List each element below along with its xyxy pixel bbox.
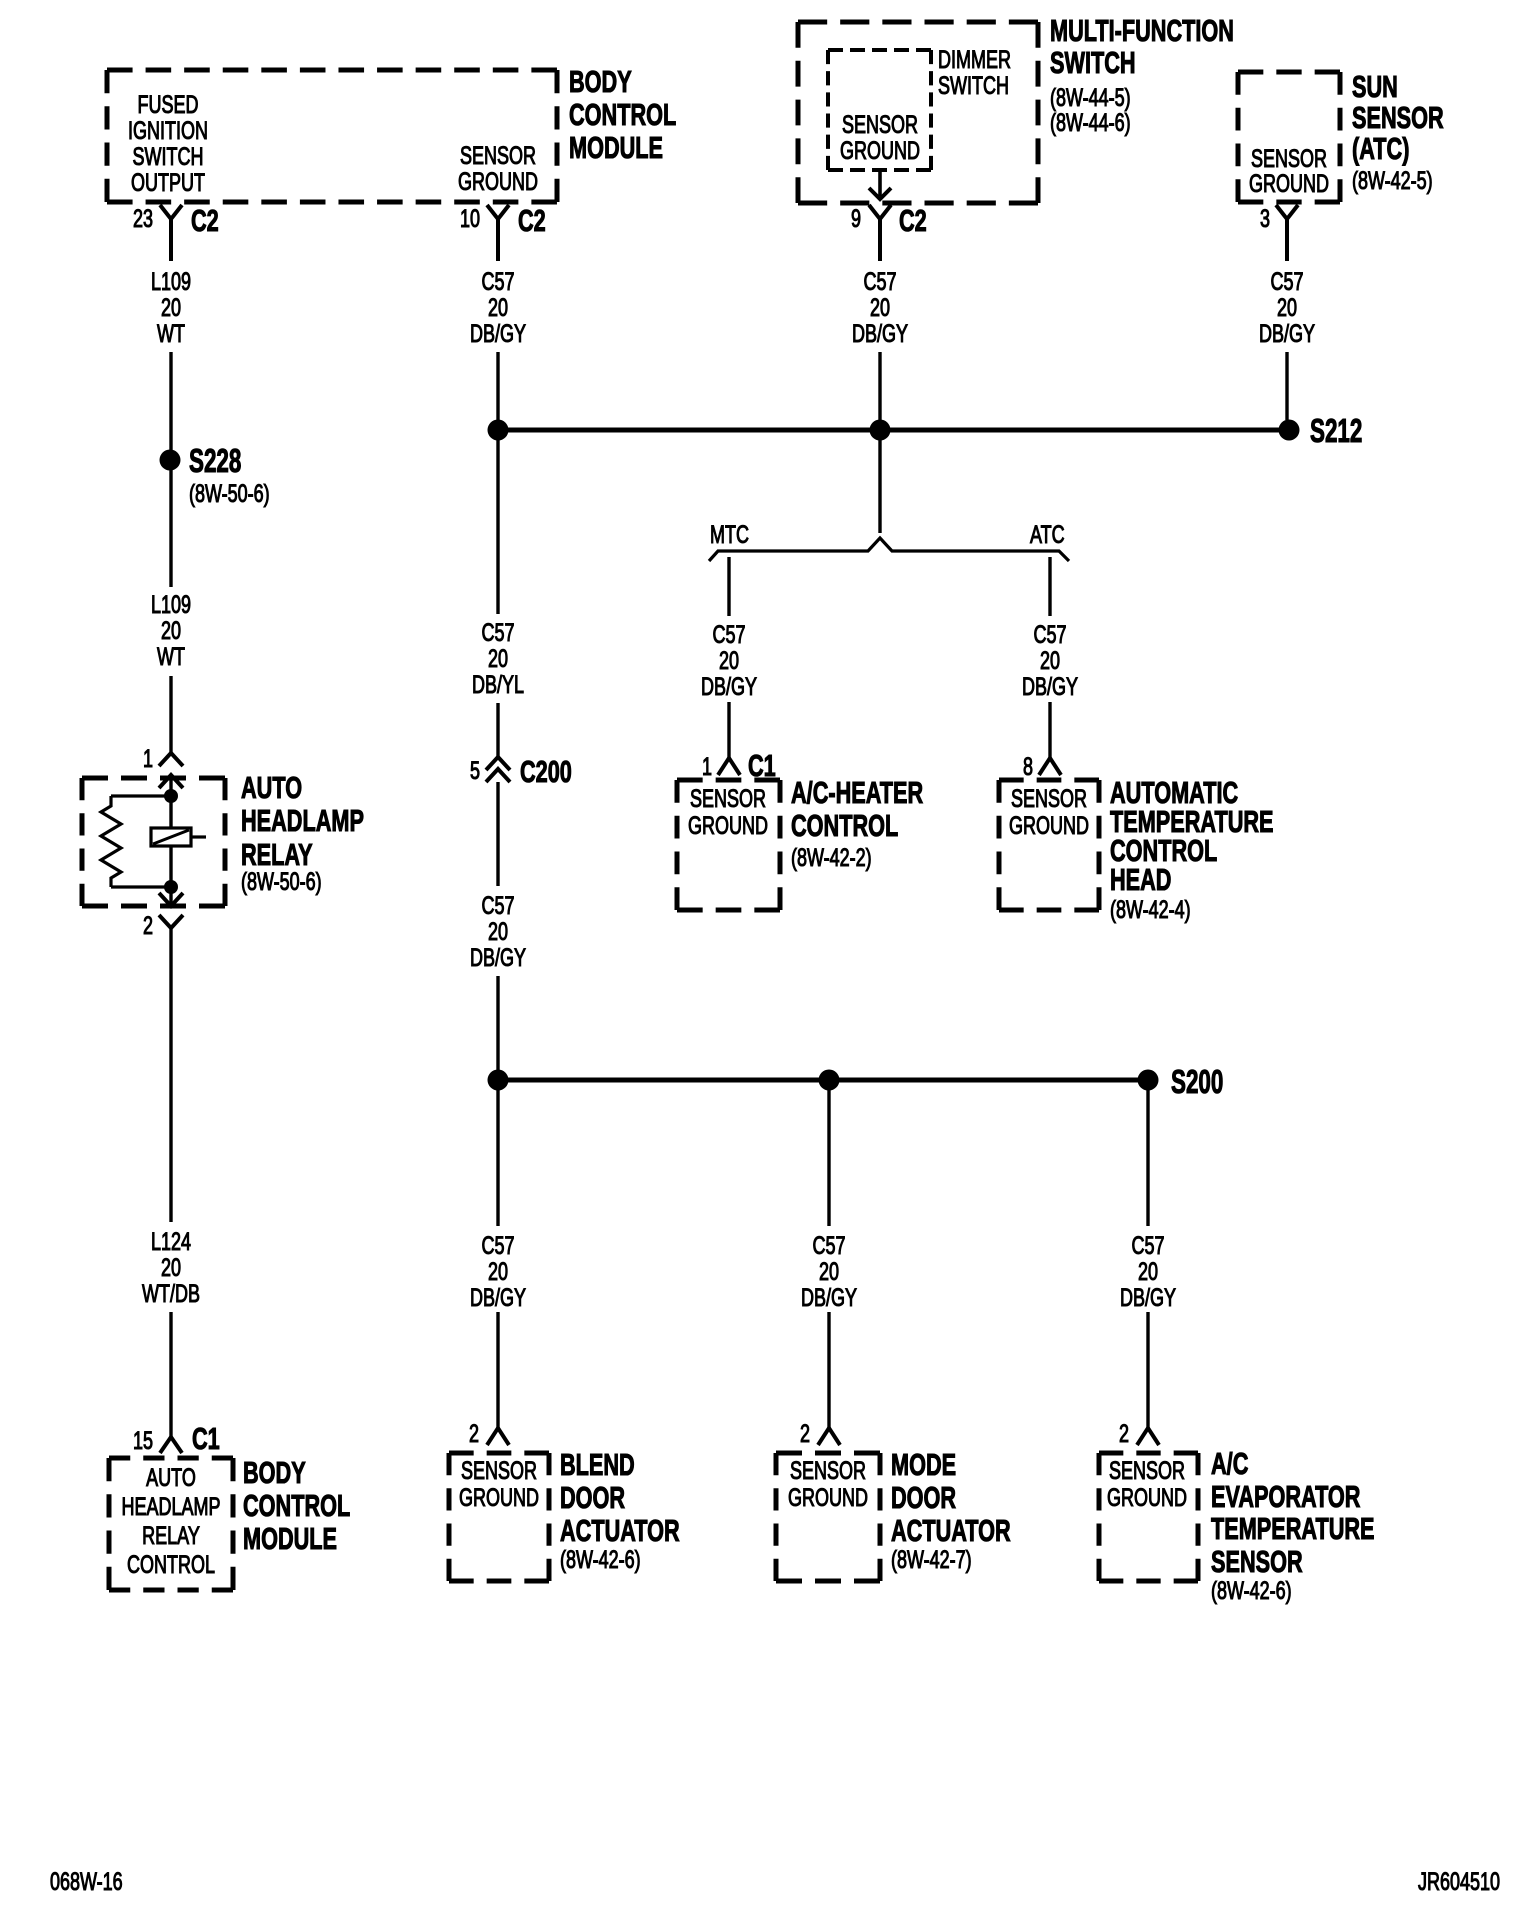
svg-text:C57: C57 xyxy=(481,618,514,647)
svg-text:DB/GY: DB/GY xyxy=(470,319,526,348)
svg-text:S200: S200 xyxy=(1171,1063,1223,1100)
svg-text:HEADLAMP: HEADLAMP xyxy=(241,803,364,838)
svg-text:JR604510: JR604510 xyxy=(1418,1867,1500,1896)
svg-text:DB/GY: DB/GY xyxy=(1120,1283,1176,1312)
svg-text:C2: C2 xyxy=(899,203,927,238)
svg-text:2: 2 xyxy=(1119,1419,1129,1448)
svg-text:L109: L109 xyxy=(151,590,191,619)
svg-text:20: 20 xyxy=(488,293,508,322)
svg-text:20: 20 xyxy=(1138,1257,1158,1286)
svg-text:20: 20 xyxy=(1277,293,1297,322)
svg-text:GROUND: GROUND xyxy=(458,167,538,196)
svg-text:WT: WT xyxy=(157,319,185,348)
svg-text:068W-16: 068W-16 xyxy=(50,1867,123,1896)
svg-text:GROUND: GROUND xyxy=(788,1483,868,1512)
svg-text:A/C-HEATER: A/C-HEATER xyxy=(791,775,923,810)
svg-text:C1: C1 xyxy=(748,748,776,783)
svg-text:(8W-42-5): (8W-42-5) xyxy=(1352,166,1433,195)
svg-text:S212: S212 xyxy=(1310,412,1362,449)
svg-text:SENSOR: SENSOR xyxy=(842,110,918,139)
svg-text:AUTO: AUTO xyxy=(241,770,302,805)
svg-text:SENSOR: SENSOR xyxy=(1109,1456,1185,1485)
svg-text:(8W-42-6): (8W-42-6) xyxy=(560,1545,641,1574)
svg-text:EVAPORATOR: EVAPORATOR xyxy=(1211,1479,1360,1514)
svg-text:C2: C2 xyxy=(191,203,219,238)
svg-text:DB/YL: DB/YL xyxy=(472,670,524,699)
svg-text:DB/GY: DB/GY xyxy=(1022,672,1078,701)
svg-text:20: 20 xyxy=(161,616,181,645)
svg-text:20: 20 xyxy=(870,293,890,322)
svg-text:MODE: MODE xyxy=(891,1447,956,1482)
svg-text:(8W-44-6): (8W-44-6) xyxy=(1050,108,1131,137)
svg-text:ACTUATOR: ACTUATOR xyxy=(560,1513,680,1548)
svg-text:DB/GY: DB/GY xyxy=(701,672,757,701)
svg-text:SENSOR: SENSOR xyxy=(790,1456,866,1485)
svg-text:L124: L124 xyxy=(151,1227,191,1256)
svg-text:OUTPUT: OUTPUT xyxy=(131,168,205,197)
svg-text:C57: C57 xyxy=(481,267,514,296)
svg-text:BLEND: BLEND xyxy=(560,1447,635,1482)
svg-text:S228: S228 xyxy=(189,442,241,479)
svg-text:20: 20 xyxy=(1040,646,1060,675)
svg-text:HEAD: HEAD xyxy=(1110,862,1171,897)
svg-text:DIMMER: DIMMER xyxy=(938,45,1011,74)
svg-text:20: 20 xyxy=(488,1257,508,1286)
svg-text:C57: C57 xyxy=(712,620,745,649)
svg-text:BODY: BODY xyxy=(243,1455,306,1490)
svg-text:DB/GY: DB/GY xyxy=(470,943,526,972)
svg-text:20: 20 xyxy=(161,1253,181,1282)
svg-text:C57: C57 xyxy=(1131,1231,1164,1260)
svg-text:(8W-42-4): (8W-42-4) xyxy=(1110,895,1191,924)
svg-text:2: 2 xyxy=(469,1419,479,1448)
svg-text:C57: C57 xyxy=(1033,620,1066,649)
svg-text:2: 2 xyxy=(143,911,153,940)
svg-text:23: 23 xyxy=(133,204,153,233)
svg-text:2: 2 xyxy=(800,1419,810,1448)
svg-text:20: 20 xyxy=(488,644,508,673)
svg-text:(8W-42-6): (8W-42-6) xyxy=(1211,1576,1292,1605)
svg-text:TEMPERATURE: TEMPERATURE xyxy=(1211,1511,1375,1546)
svg-text:CONTROL: CONTROL xyxy=(791,808,898,843)
svg-text:MULTI-FUNCTION: MULTI-FUNCTION xyxy=(1050,13,1234,48)
svg-text:MTC: MTC xyxy=(710,520,749,549)
svg-text:DB/GY: DB/GY xyxy=(1259,319,1315,348)
svg-text:A/C: A/C xyxy=(1211,1446,1248,1481)
svg-text:3: 3 xyxy=(1260,204,1270,233)
svg-text:SENSOR: SENSOR xyxy=(461,1456,537,1485)
svg-text:BODY: BODY xyxy=(569,64,632,99)
svg-text:L109: L109 xyxy=(151,267,191,296)
svg-text:SENSOR: SENSOR xyxy=(690,784,766,813)
svg-text:GROUND: GROUND xyxy=(459,1483,539,1512)
svg-text:IGNITION: IGNITION xyxy=(128,116,208,145)
svg-text:C1: C1 xyxy=(192,1421,220,1456)
svg-text:C57: C57 xyxy=(1270,267,1303,296)
svg-text:(8W-42-7): (8W-42-7) xyxy=(891,1545,972,1574)
svg-text:GROUND: GROUND xyxy=(1107,1483,1187,1512)
svg-text:1: 1 xyxy=(702,752,712,781)
svg-text:C57: C57 xyxy=(481,1231,514,1260)
svg-text:C2: C2 xyxy=(518,203,546,238)
svg-text:DOOR: DOOR xyxy=(891,1480,956,1515)
svg-text:C200: C200 xyxy=(520,754,572,789)
svg-text:20: 20 xyxy=(819,1257,839,1286)
svg-text:20: 20 xyxy=(161,293,181,322)
svg-text:DOOR: DOOR xyxy=(560,1480,625,1515)
svg-text:SENSOR: SENSOR xyxy=(1011,784,1087,813)
svg-text:HEADLAMP: HEADLAMP xyxy=(122,1492,221,1521)
svg-text:20: 20 xyxy=(719,646,739,675)
svg-text:(8W-42-2): (8W-42-2) xyxy=(791,843,872,872)
svg-text:MODULE: MODULE xyxy=(569,130,663,165)
svg-text:RELAY: RELAY xyxy=(142,1521,200,1550)
svg-text:WT/DB: WT/DB xyxy=(142,1279,200,1308)
svg-text:DB/GY: DB/GY xyxy=(801,1283,857,1312)
svg-text:SENSOR: SENSOR xyxy=(1211,1544,1303,1579)
svg-text:5: 5 xyxy=(470,756,480,785)
svg-text:CONTROL: CONTROL xyxy=(127,1550,215,1579)
svg-text:MODULE: MODULE xyxy=(243,1521,337,1556)
svg-text:GROUND: GROUND xyxy=(840,136,920,165)
svg-text:GROUND: GROUND xyxy=(1249,169,1329,198)
svg-text:SWITCH: SWITCH xyxy=(1050,45,1136,80)
svg-text:DB/GY: DB/GY xyxy=(852,319,908,348)
svg-text:SUN: SUN xyxy=(1352,69,1398,104)
svg-text:ATC: ATC xyxy=(1030,520,1065,549)
svg-text:CONTROL: CONTROL xyxy=(243,1488,350,1523)
svg-text:C57: C57 xyxy=(863,267,896,296)
svg-text:15: 15 xyxy=(133,1426,153,1455)
svg-text:C57: C57 xyxy=(812,1231,845,1260)
svg-text:WT: WT xyxy=(157,642,185,671)
svg-text:C57: C57 xyxy=(481,891,514,920)
svg-text:10: 10 xyxy=(460,204,480,233)
svg-text:ACTUATOR: ACTUATOR xyxy=(891,1513,1011,1548)
svg-text:1: 1 xyxy=(143,744,153,773)
svg-text:20: 20 xyxy=(488,917,508,946)
svg-text:(8W-50-6): (8W-50-6) xyxy=(241,867,322,896)
svg-text:(8W-50-6): (8W-50-6) xyxy=(189,479,270,508)
svg-text:GROUND: GROUND xyxy=(688,811,768,840)
svg-text:SENSOR: SENSOR xyxy=(460,141,536,170)
svg-text:(ATC): (ATC) xyxy=(1352,131,1409,166)
svg-text:SWITCH: SWITCH xyxy=(133,142,204,171)
svg-text:9: 9 xyxy=(851,204,861,233)
svg-text:GROUND: GROUND xyxy=(1009,811,1089,840)
svg-text:AUTO: AUTO xyxy=(146,1463,196,1492)
svg-text:DB/GY: DB/GY xyxy=(470,1283,526,1312)
svg-text:SENSOR: SENSOR xyxy=(1352,100,1444,135)
svg-text:FUSED: FUSED xyxy=(138,90,199,119)
svg-text:CONTROL: CONTROL xyxy=(569,97,676,132)
svg-text:8: 8 xyxy=(1023,752,1033,781)
svg-text:SWITCH: SWITCH xyxy=(938,71,1009,100)
